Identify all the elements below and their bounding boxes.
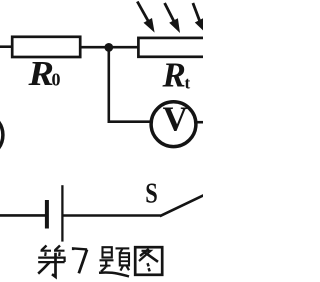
resistor R0 <box>12 37 80 57</box>
light arrow 1 <box>137 2 154 33</box>
wire: left lead into R0 <box>0 45 13 48</box>
wire: R0 to junction <box>81 46 108 49</box>
wire: battery to switch <box>64 214 161 217</box>
wire: to voltmeter <box>108 120 153 123</box>
wire: battery left lead <box>0 214 46 217</box>
caption: character 题 <box>99 247 129 276</box>
svg-text:R: R <box>27 54 54 93</box>
caption: digit 7 <box>73 248 87 273</box>
ammeter (partial at left edge) <box>0 113 3 158</box>
label S <box>145 178 158 210</box>
wire: voltmeter right stub <box>196 121 203 124</box>
junction node <box>104 43 113 52</box>
svg-text:R: R <box>162 56 186 95</box>
label R0 <box>27 54 54 93</box>
svg-text:t: t <box>185 74 191 93</box>
resistor Rt (photoresistor) <box>138 38 206 57</box>
caption: character 第 <box>38 246 64 277</box>
switch S lever <box>160 195 204 216</box>
wire: junction down <box>108 47 111 123</box>
svg-text:0: 0 <box>52 70 61 90</box>
light arrow 2 <box>165 3 180 33</box>
label Rt <box>162 56 186 95</box>
svg-text:V: V <box>163 100 188 139</box>
wire: junction to Rt <box>109 46 138 49</box>
svg-text:S: S <box>145 178 158 210</box>
voltmeter V1 <box>151 100 196 147</box>
caption: character 图 <box>135 247 162 275</box>
light arrow 3 <box>193 3 206 33</box>
battery positive plate (long thin) <box>61 185 63 241</box>
battery negative plate (short thick) <box>45 200 49 229</box>
